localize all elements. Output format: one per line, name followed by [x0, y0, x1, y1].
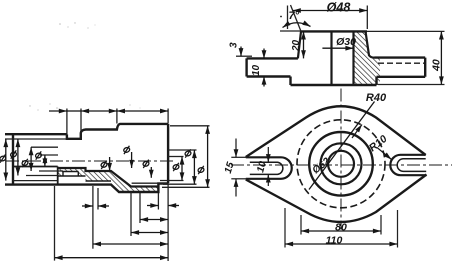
svg-text:Ø30: Ø30: [336, 36, 356, 48]
svg-text:Ø48: Ø48: [327, 1, 351, 15]
svg-text:10: 10: [251, 64, 262, 76]
svg-text:7°: 7°: [289, 10, 300, 22]
svg-text:80: 80: [335, 222, 347, 234]
svg-text:R40: R40: [366, 92, 387, 104]
svg-text:3: 3: [229, 42, 240, 48]
svg-text:40: 40: [431, 59, 443, 72]
svg-text:20: 20: [291, 39, 302, 52]
svg-text:110: 110: [326, 235, 343, 247]
